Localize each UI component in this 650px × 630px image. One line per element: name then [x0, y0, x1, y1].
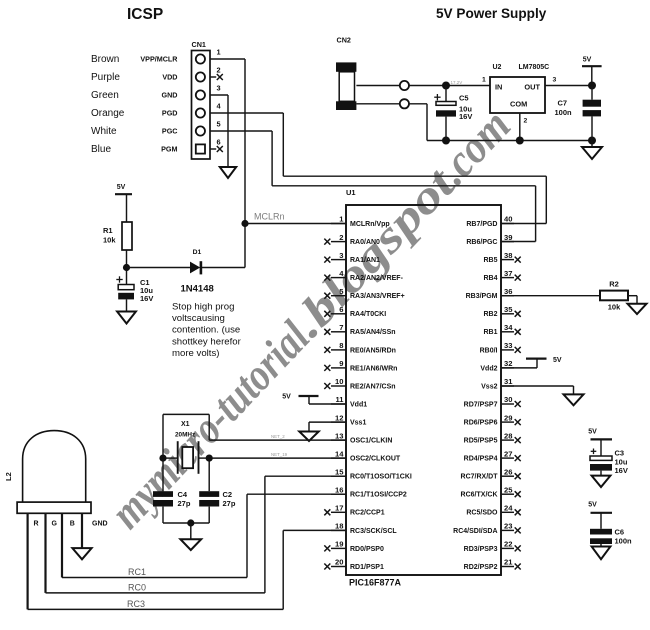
svg-text:RC6/TX/CK: RC6/TX/CK: [461, 492, 498, 499]
svg-text:15: 15: [335, 467, 344, 476]
svg-text:Blue: Blue: [91, 144, 111, 155]
svg-text:ICSP: ICSP: [127, 6, 163, 23]
svg-text:G: G: [51, 521, 57, 528]
svg-text:RC2/CCP1: RC2/CCP1: [350, 510, 385, 517]
svg-text:RA3/AN3/VREF+: RA3/AN3/VREF+: [350, 293, 405, 300]
svg-text:RD1/PSP1: RD1/PSP1: [350, 564, 384, 571]
svg-text:2: 2: [524, 118, 528, 125]
svg-text:RB7/PGD: RB7/PGD: [466, 221, 497, 228]
svg-text:RA4/T0CKI: RA4/T0CKI: [350, 311, 386, 318]
svg-text:RB3/PGM: RB3/PGM: [466, 293, 498, 300]
svg-text:10k: 10k: [103, 236, 116, 245]
svg-text:39: 39: [504, 233, 512, 242]
svg-text:5V: 5V: [583, 57, 592, 64]
svg-text:RB0/I: RB0/I: [480, 347, 498, 354]
svg-text:16: 16: [335, 485, 343, 494]
svg-text:14: 14: [335, 449, 344, 458]
svg-text:3: 3: [553, 77, 557, 84]
svg-text:contention. (use: contention. (use: [172, 325, 240, 336]
svg-text:RA1/AN1: RA1/AN1: [350, 257, 380, 264]
svg-text:35: 35: [504, 305, 513, 314]
svg-text:2: 2: [339, 233, 343, 242]
svg-text:27: 27: [504, 449, 512, 458]
svg-text:RC1: RC1: [128, 567, 146, 577]
svg-text:R: R: [33, 521, 38, 528]
svg-text:Vdd2: Vdd2: [480, 365, 497, 372]
svg-text:20MHz: 20MHz: [175, 432, 195, 439]
svg-text:OSC1/CLKIN: OSC1/CLKIN: [350, 438, 392, 445]
svg-text:RC0/T1OSO/T1CKI: RC0/T1OSO/T1CKI: [350, 474, 412, 481]
svg-text:C7: C7: [558, 99, 568, 108]
svg-text:X1: X1: [181, 421, 190, 428]
svg-text:25: 25: [504, 485, 513, 494]
svg-text:RD2/PSP2: RD2/PSP2: [464, 564, 498, 571]
svg-text:5: 5: [217, 119, 221, 128]
svg-text:VPP/MCLR: VPP/MCLR: [140, 55, 178, 64]
svg-text:IN: IN: [495, 82, 502, 91]
svg-text:20: 20: [335, 558, 343, 567]
svg-text:RC7/RX/DT: RC7/RX/DT: [461, 474, 499, 481]
svg-text:28: 28: [504, 431, 512, 440]
svg-text:26: 26: [504, 467, 512, 476]
svg-text:7: 7: [339, 323, 343, 332]
svg-text:8: 8: [339, 341, 343, 350]
svg-text:C6: C6: [615, 527, 625, 536]
svg-text:10k: 10k: [608, 303, 621, 312]
svg-text:RD5/PSP5: RD5/PSP5: [464, 438, 498, 445]
svg-text:5V: 5V: [553, 357, 562, 364]
svg-text:C5: C5: [459, 93, 469, 102]
svg-text:CN2: CN2: [337, 36, 351, 45]
svg-text:RE1/AN6/WRn: RE1/AN6/WRn: [350, 365, 397, 372]
svg-text:NET_19: NET_19: [271, 452, 288, 457]
svg-text:Orange: Orange: [91, 108, 125, 119]
svg-text:RC5/SDO: RC5/SDO: [466, 510, 498, 517]
svg-text:100n: 100n: [615, 537, 633, 546]
svg-text:12: 12: [335, 413, 343, 422]
svg-text:U1: U1: [346, 188, 356, 197]
svg-text:5V: 5V: [588, 429, 597, 436]
svg-text:RB5: RB5: [483, 257, 497, 264]
svg-text:COM: COM: [510, 100, 527, 109]
svg-text:PGC: PGC: [162, 127, 178, 136]
svg-text:5V: 5V: [588, 502, 597, 509]
svg-text:RC0: RC0: [128, 583, 146, 593]
svg-text:PGD: PGD: [162, 109, 178, 118]
svg-text:RB4: RB4: [483, 275, 497, 282]
svg-text:L2: L2: [4, 472, 13, 481]
svg-text:38: 38: [504, 251, 512, 260]
svg-text:GND: GND: [162, 91, 178, 100]
svg-text:C2: C2: [223, 490, 233, 499]
svg-text:34: 34: [504, 323, 513, 332]
svg-text:36: 36: [504, 287, 512, 296]
svg-text:2: 2: [217, 65, 221, 74]
svg-text:6: 6: [217, 137, 221, 146]
svg-text:RB1: RB1: [483, 329, 497, 336]
svg-text:Vdd1: Vdd1: [350, 401, 367, 408]
svg-text:27p: 27p: [178, 499, 191, 508]
svg-text:1: 1: [217, 47, 221, 56]
svg-text:R1: R1: [103, 226, 113, 235]
svg-text:D1: D1: [193, 249, 202, 256]
svg-text:27p: 27p: [223, 499, 236, 508]
svg-text:9: 9: [339, 359, 343, 368]
svg-text:32: 32: [504, 359, 512, 368]
svg-text:100n: 100n: [555, 108, 573, 117]
svg-text:RC3/SCK/SCL: RC3/SCK/SCL: [350, 528, 397, 535]
svg-text:29: 29: [504, 413, 512, 422]
svg-text:33: 33: [504, 341, 512, 350]
svg-text:RC3: RC3: [127, 599, 145, 609]
svg-text:MCLRn: MCLRn: [254, 212, 285, 222]
svg-text:C3: C3: [615, 449, 625, 458]
svg-text:RA0/AN0: RA0/AN0: [350, 239, 380, 246]
svg-text:B: B: [70, 521, 75, 528]
svg-text:shottkey herefor: shottkey herefor: [172, 336, 242, 347]
svg-text:19: 19: [335, 540, 343, 549]
svg-text:Stop high prog: Stop high prog: [172, 302, 234, 313]
svg-text:OUT: OUT: [524, 82, 540, 91]
svg-text:17: 17: [335, 504, 343, 513]
svg-text:23: 23: [504, 522, 512, 531]
svg-text:more volts): more volts): [172, 348, 219, 359]
svg-text:37: 37: [504, 269, 512, 278]
svg-text:C4: C4: [178, 490, 188, 499]
svg-text:RB2: RB2: [483, 311, 497, 318]
svg-text:VDD: VDD: [162, 73, 177, 82]
svg-text:13: 13: [335, 431, 343, 440]
svg-text:1: 1: [482, 77, 486, 84]
svg-text:RE2/AN7/CSn: RE2/AN7/CSn: [350, 383, 396, 390]
svg-text:RD7/PSP7: RD7/PSP7: [464, 401, 498, 408]
svg-text:RE0/AN5/RDn: RE0/AN5/RDn: [350, 347, 396, 354]
svg-text:RD3/PSP3: RD3/PSP3: [464, 546, 498, 553]
svg-text:RA2/AN2/VREF-: RA2/AN2/VREF-: [350, 275, 404, 282]
svg-text:30: 30: [504, 395, 512, 404]
svg-text:5V: 5V: [282, 394, 291, 401]
svg-text:5V: 5V: [117, 184, 126, 191]
svg-text:OSC2/CLKOUT: OSC2/CLKOUT: [350, 456, 401, 463]
svg-text:MCLRn/Vpp: MCLRn/Vpp: [350, 221, 390, 228]
svg-text:Purple: Purple: [91, 72, 120, 83]
svg-text:PIC16F877A: PIC16F877A: [349, 578, 402, 588]
svg-text:GND: GND: [92, 521, 108, 528]
svg-text:voltscausing: voltscausing: [172, 313, 225, 324]
svg-text:16V: 16V: [459, 112, 472, 121]
svg-text:Green: Green: [91, 90, 119, 101]
svg-text:16V: 16V: [140, 294, 153, 303]
svg-text:18: 18: [335, 522, 343, 531]
svg-text:31: 31: [504, 377, 513, 386]
svg-text:6: 6: [339, 305, 343, 314]
svg-text:1N4148: 1N4148: [181, 284, 214, 295]
svg-text:Vss1: Vss1: [350, 420, 366, 427]
svg-text:Vss2: Vss2: [481, 383, 497, 390]
svg-text:21: 21: [504, 558, 513, 567]
svg-text:17.2V: 17.2V: [451, 80, 463, 85]
svg-text:RC4/SDI/SDA: RC4/SDI/SDA: [453, 528, 497, 535]
svg-text:White: White: [91, 126, 117, 137]
svg-text:24: 24: [504, 504, 513, 513]
svg-text:11: 11: [335, 395, 344, 404]
svg-text:3: 3: [339, 251, 343, 260]
svg-text:10u: 10u: [615, 457, 628, 466]
svg-text:CN1: CN1: [192, 40, 206, 49]
svg-text:R2: R2: [609, 280, 619, 289]
svg-text:5V Power Supply: 5V Power Supply: [436, 6, 547, 21]
svg-text:PGM: PGM: [161, 145, 177, 154]
svg-text:22: 22: [504, 540, 512, 549]
svg-text:RA5/AN4/SSn: RA5/AN4/SSn: [350, 329, 396, 336]
svg-text:NET_2: NET_2: [271, 434, 285, 439]
svg-text:3: 3: [217, 83, 221, 92]
svg-text:RD0/PSP0: RD0/PSP0: [350, 546, 384, 553]
svg-text:10: 10: [335, 377, 343, 386]
svg-text:U2: U2: [493, 64, 502, 71]
svg-text:40: 40: [504, 215, 512, 224]
svg-text:RD4/PSP4: RD4/PSP4: [464, 456, 498, 463]
svg-text:16V: 16V: [615, 466, 628, 475]
svg-text:LM7805C: LM7805C: [519, 64, 550, 71]
svg-text:Brown: Brown: [91, 54, 119, 65]
svg-text:RD6/PSP6: RD6/PSP6: [464, 420, 498, 427]
svg-text:RB6/PGC: RB6/PGC: [466, 239, 497, 246]
svg-text:RC1/T1OSI/CCP2: RC1/T1OSI/CCP2: [350, 492, 407, 499]
